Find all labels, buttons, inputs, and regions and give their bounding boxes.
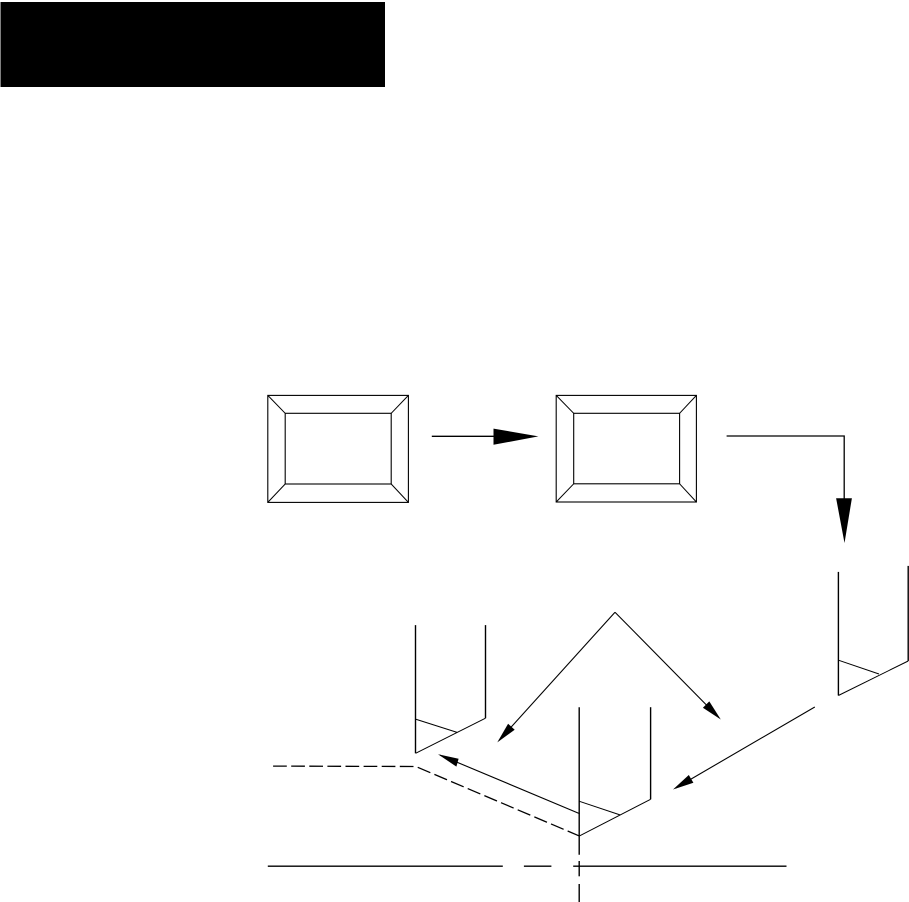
frame 2 bevel diagonals bbox=[556, 395, 696, 502]
tool tip B inner facet line bbox=[579, 801, 620, 815]
left leader arrowhead bbox=[438, 754, 459, 766]
flow arrow 1 (frame 1 to frame 2, shaft) bbox=[432, 435, 494, 437]
leader from right (to tool tip B right side) bbox=[676, 707, 815, 788]
frame 1 inner rectangle bbox=[285, 413, 391, 484]
split leader left arrowhead bbox=[497, 724, 514, 743]
tool tip C right wall bbox=[907, 566, 909, 661]
split leader apex left branch (to tool tip A) bbox=[499, 612, 615, 740]
flow arrow 1 head bbox=[494, 429, 539, 445]
leader from tool tip B to tool tip A point (solid) bbox=[440, 755, 580, 814]
split leader right arrowhead bbox=[703, 701, 721, 719]
tool tip A inner facet line bbox=[416, 719, 458, 732]
split leader apex right branch (to tool tip C direction) bbox=[615, 612, 719, 718]
tool tip B (middle cutter shape) left wall bbox=[578, 707, 580, 855]
tool tip B bottom edge bbox=[579, 799, 650, 836]
frame 1 bevel diagonals bbox=[268, 395, 409, 502]
flow arrow 2 (frame 2 right, elbow shaft) bbox=[727, 436, 845, 499]
baseline short dash bbox=[524, 865, 552, 867]
baseline right segment bbox=[573, 865, 786, 867]
tool tip A right wall bbox=[485, 625, 487, 718]
baseline left segment (workpiece surface line) bbox=[268, 865, 503, 867]
dashed leader line (horizontal then diagonal to tool tip B point) bbox=[273, 766, 579, 836]
centerline bottom segment bbox=[578, 884, 580, 902]
frame 2 inner rectangle bbox=[574, 413, 680, 484]
frame 2 (right beveled frame, outer rectangle) bbox=[556, 395, 696, 502]
flow arrow 2 head (downward) bbox=[836, 498, 852, 543]
centerline cross tick bbox=[578, 861, 580, 876]
tool tip C inner facet line bbox=[838, 660, 879, 674]
tool tip A bottom edge bbox=[416, 718, 486, 753]
tool tip C (right cutter shape) left wall bbox=[837, 572, 839, 696]
redaction bar (black rectangle top-left) bbox=[1, 2, 386, 87]
tool tip B right wall bbox=[650, 707, 652, 799]
right leader arrowhead bbox=[673, 775, 693, 790]
frame 1 (left beveled frame, outer rectangle) bbox=[268, 395, 409, 502]
tool tip A (left cutter shape) left wall bbox=[415, 625, 417, 753]
tool tip C bottom edge bbox=[838, 661, 908, 696]
